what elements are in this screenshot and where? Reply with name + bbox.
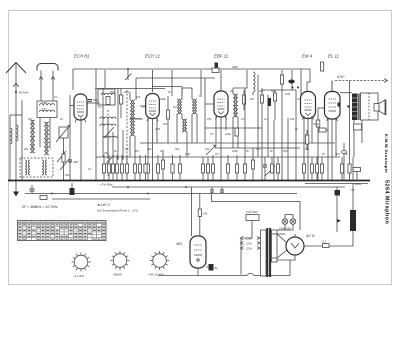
wire rail y143	[140, 142, 335, 144]
svg-text:10k: 10k	[163, 122, 168, 126]
svg-text:125v: 125v	[246, 242, 253, 246]
resistor 0.1	[323, 244, 330, 248]
IF transformer T2a	[177, 99, 182, 114]
wire IFT2 leads	[177, 88, 197, 157]
capacitor C 300	[68, 160, 72, 162]
capacitor hang x265	[263, 157, 267, 181]
wire rail y157	[96, 156, 340, 158]
capacitor 100u	[335, 187, 341, 232]
resistor hang x272	[270, 157, 273, 173]
resistor 10k	[198, 209, 201, 217]
wire V6 leads top	[192, 187, 200, 236]
svg-text:2M2: 2M2	[231, 65, 238, 69]
wire vert x320	[316, 108, 320, 181]
svg-text:2M2: 2M2	[154, 127, 161, 131]
page edge bottom	[8, 284, 392, 286]
svg-text:Á.L.B.P: Á.L.B.P	[73, 274, 84, 278]
resistor hang x278	[276, 157, 279, 181]
svg-text:25p: 25p	[206, 117, 212, 121]
coil L-mid2	[130, 119, 142, 121]
wire V1 cathode down	[80, 118, 82, 181]
svg-text:50p: 50p	[110, 90, 115, 94]
resistor hang x113	[111, 155, 114, 181]
coil L-mid row2	[100, 124, 116, 126]
resistor hang x127	[125, 155, 128, 181]
wire top bus drop x152	[152, 70, 154, 92]
wire vert x63	[63, 138, 65, 181]
svg-text:0,5: 0,5	[142, 105, 146, 109]
wire HT feed	[212, 194, 301, 231]
arrow mark x337	[337, 219, 341, 223]
wire vert x205	[204, 104, 206, 143]
svg-text:0,1: 0,1	[88, 167, 92, 171]
svg-text:100p: 100p	[160, 97, 166, 101]
voltage tap arrows left	[241, 237, 244, 275]
resistor below IFT3	[235, 128, 238, 136]
resistor hang x245	[243, 157, 246, 181]
coil L1 on antenna lead	[16, 125, 18, 141]
svg-text:BAND: BAND	[114, 273, 123, 277]
wire vert x262	[261, 88, 263, 181]
wire bus elbow x310	[307, 69, 310, 91]
resistor hang x213	[211, 155, 214, 181]
wire rail y193	[25, 193, 297, 195]
component blob on bus x216	[215, 63, 219, 68]
wire horiz y88	[95, 88, 165, 90]
wire vert x288	[287, 118, 289, 181]
wire vert x172	[171, 70, 173, 96]
resistor right x275	[273, 90, 276, 120]
svg-text:300: 300	[73, 160, 78, 164]
junction dot	[147, 193, 149, 195]
wire V1 plate right	[88, 102, 101, 104]
svg-text:EM 4: EM 4	[302, 54, 313, 59]
resistor above bus x322	[321, 62, 324, 71]
tube V6 4E5	[190, 236, 206, 268]
junction dot	[69, 180, 71, 182]
wire rail y199 short	[52, 198, 150, 200]
wire vert x296	[295, 90, 297, 181]
wire V6 bottom	[197, 268, 199, 276]
tube pin stubs	[327, 118, 338, 122]
frame pickup symbol	[37, 64, 58, 102]
resistor hang x104	[102, 155, 105, 181]
resistor hang x322	[320, 157, 323, 181]
wire AZ11 bottom	[277, 255, 295, 260]
svg-text:AZ 11: AZ 11	[305, 234, 315, 238]
svg-text:4k7: 4k7	[250, 97, 255, 101]
resistor right x262b	[260, 95, 263, 103]
resistor vert x244	[242, 90, 245, 110]
resistor hang x208	[206, 157, 209, 181]
svg-text:50p: 50p	[65, 173, 70, 177]
wire vert x268	[267, 95, 269, 157]
wire V1 grid	[70, 105, 75, 107]
wire lamp rail	[277, 215, 293, 231]
svg-text:10k: 10k	[203, 212, 208, 216]
svg-text:ECH 11: ECH 11	[145, 54, 161, 59]
svg-text:Auf Sonderband Punkt 2 - 270: Auf Sonderband Punkt 2 - 270	[96, 209, 138, 213]
power transformer secondary	[272, 230, 278, 262]
wire choke lead	[252, 92, 254, 95]
tube V2 ECH11	[146, 94, 160, 119]
svg-text:25p: 25p	[282, 149, 288, 153]
switch diagonal mid	[206, 145, 216, 155]
antenna node dot	[15, 91, 17, 93]
resistor hang x228	[226, 155, 229, 181]
svg-text:100p: 100p	[232, 149, 238, 153]
switch contact mid1	[104, 127, 114, 166]
svg-text:100p: 100p	[225, 132, 231, 136]
svg-text:240v: 240v	[354, 182, 362, 186]
svg-text:0,5: 0,5	[297, 97, 301, 101]
lower coil pair D	[42, 160, 47, 175]
wire V2 cathode	[152, 119, 154, 181]
resistor mid	[106, 97, 110, 105]
svg-text:8μ: 8μ	[215, 266, 219, 270]
band switch contacts left	[57, 151, 69, 170]
wire mains up	[289, 260, 291, 276]
resistor hang x145.5	[144, 155, 147, 181]
svg-text:0,1: 0,1	[54, 95, 58, 99]
resistor hang x317	[315, 157, 318, 181]
wire V5 plate line	[340, 92, 352, 94]
tube pin stubs	[303, 116, 314, 120]
dial lamps	[282, 219, 296, 225]
resistor hang x158	[156, 155, 159, 181]
wire V3 grid	[205, 103, 214, 105]
wire left vert x10	[9, 115, 11, 181]
tube pin stubs	[216, 116, 227, 120]
svg-text:50p: 50p	[175, 147, 180, 151]
wire x353 above	[352, 157, 354, 181]
resistor hang x312	[310, 157, 313, 181]
resistor hang x117	[115, 155, 118, 181]
wire to choke	[329, 231, 353, 246]
switch contact right	[265, 166, 275, 176]
wire top bus drop x128	[125, 68, 132, 80]
model text vertical	[384, 134, 390, 224]
wire V5 pins	[328, 119, 336, 181]
junction dot	[95, 180, 97, 182]
resistor vert x168	[166, 96, 169, 143]
bandfilter coil pair B	[44, 122, 49, 155]
wire top bus drop x73	[72, 69, 74, 90]
wire vert x123	[122, 130, 124, 160]
wire top bus drop x221	[220, 70, 222, 91]
ground symbol	[13, 181, 19, 197]
wire V2 pin right	[156, 117, 158, 143]
svg-text:2M2: 2M2	[284, 92, 291, 96]
svg-text:4k7: 4k7	[28, 117, 33, 121]
capacitor left x63	[62, 150, 65, 162]
wire V3 pin left	[215, 116, 217, 143]
capacitor below bus x32	[30, 185, 35, 194]
choke electrolytic block	[350, 210, 356, 231]
svg-text:110v: 110v	[246, 237, 252, 241]
svg-text:0,1: 0,1	[125, 147, 129, 151]
wire left link	[10, 114, 22, 116]
svg-text:EL 11: EL 11	[328, 54, 340, 59]
wire vert x113	[112, 132, 114, 157]
voltage table	[18, 221, 107, 241]
wire V5 heater up	[331, 81, 333, 92]
resistor on top bus	[212, 68, 219, 73]
svg-text:+Tls 5Ma: +Tls 5Ma	[100, 183, 113, 187]
tube V4 EM4	[301, 92, 316, 119]
knob 2	[111, 251, 130, 277]
wire OT leads	[354, 120, 363, 157]
dashed coil enclosure box	[20, 158, 53, 177]
fuse oval x344	[342, 143, 347, 181]
wire osc box leads	[40, 118, 50, 150]
wire EL11 grid left	[318, 107, 325, 109]
svg-text:60 kHz: 60 kHz	[19, 91, 29, 95]
tube V7 AZ11	[286, 234, 304, 255]
page edge left	[8, 10, 10, 285]
capacitor 50p upper	[88, 100, 92, 102]
ground bus	[8, 180, 370, 182]
coil box mid	[98, 89, 115, 105]
resistor box x253	[251, 148, 254, 181]
svg-text:30p: 30p	[259, 89, 264, 93]
IF transformer T2c lower	[182, 119, 187, 132]
svg-text:EBF 11: EBF 11	[214, 54, 229, 59]
IF transformer T3	[233, 94, 238, 117]
resistor below bus x43	[40, 196, 47, 200]
power transformer primary	[261, 230, 267, 276]
svg-text:10k: 10k	[136, 95, 141, 99]
page edge top	[8, 10, 392, 12]
wire vert x96	[95, 69, 97, 181]
svg-text:0,5A 25W: 0,5A 25W	[246, 210, 258, 214]
output transformer box	[361, 93, 379, 120]
output transformer winding block	[352, 94, 358, 121]
resistor hang x122	[120, 155, 123, 181]
svg-text:0,1: 0,1	[241, 117, 245, 121]
dashed link vert x127	[126, 90, 128, 176]
oscillator coil box	[37, 101, 57, 118]
tube V1 ECH81	[74, 94, 87, 120]
resistor hang x163	[161, 150, 164, 181]
wire IFT3 leads	[233, 72, 247, 148]
output transformer core lines	[358, 94, 359, 121]
wire left vert x22	[21, 100, 23, 181]
wire choke up	[352, 183, 354, 210]
coil L-mid upper	[101, 93, 115, 95]
svg-text:6,3V~: 6,3V~	[337, 75, 346, 79]
electrolytic 8uF	[206, 264, 214, 271]
lower coil pair C	[25, 160, 30, 175]
knob 3	[149, 251, 170, 277]
wire top bus drop x247	[246, 70, 248, 72]
svg-text:2M2: 2M2	[123, 90, 130, 94]
dark resistor x269	[268, 98, 271, 106]
svg-text:⊕ 140 V: ⊕ 140 V	[97, 203, 110, 207]
knob 1	[72, 253, 91, 279]
wire vert x258	[257, 75, 259, 157]
resistor hang x237	[235, 155, 238, 181]
resistor vert x282	[280, 70, 283, 181]
EL11 anode blob	[338, 103, 341, 107]
svg-text:50p: 50p	[271, 89, 276, 93]
svg-text:10k: 10k	[290, 117, 295, 121]
resistor hang x347	[347, 81, 351, 181]
wire V3 cathode	[220, 117, 222, 181]
dashed link vert x108	[107, 110, 109, 176]
wire top bus drop x301	[300, 69, 302, 95]
trimmer pair x212	[210, 187, 224, 194]
junction dot	[261, 180, 263, 182]
junction dot	[51, 193, 53, 195]
svg-text:ECH 81: ECH 81	[74, 54, 90, 59]
resistor hang x304	[302, 157, 305, 181]
svg-text:10k: 10k	[205, 147, 210, 151]
resistor horiz x354	[353, 168, 361, 181]
wire IFT1 leads	[130, 92, 135, 157]
speaker	[374, 100, 386, 116]
resistor vert x121	[119, 88, 122, 118]
tube V3 EBF11	[214, 91, 228, 117]
tube pin stubs	[147, 118, 158, 122]
variable capacitor C-tune	[56, 125, 70, 142]
IF transformer T2b	[192, 99, 197, 114]
coil L-mid row1	[100, 117, 116, 119]
heater supply line 6.3V	[332, 79, 388, 92]
wire lamp to az	[276, 233, 285, 235]
wire top bus drop x105	[104, 70, 106, 88]
junction dot	[185, 186, 187, 188]
wire top bus drop x201	[200, 70, 202, 95]
wire blob lead	[215, 68, 217, 70]
svg-text:0,5: 0,5	[210, 132, 214, 136]
resistor vert x307	[305, 130, 308, 150]
svg-text:0,1: 0,1	[98, 105, 102, 109]
wire rail y187	[112, 186, 345, 188]
wire grid loop above V2	[136, 78, 215, 104]
coil L-mid row3	[103, 136, 117, 138]
wire vert x274	[273, 120, 275, 181]
wire vert x103	[102, 88, 104, 157]
voltage tap arrows right	[257, 237, 260, 250]
resistor hang x109	[107, 155, 110, 181]
resistor hang x203	[201, 157, 204, 181]
junction dot	[295, 180, 297, 182]
mains switch	[247, 273, 254, 275]
wire rail y183 right	[305, 183, 368, 185]
resistor hang x148	[146, 155, 149, 181]
tube pin stubs	[75, 119, 86, 123]
RF choke below bus	[253, 72, 255, 92]
bandfilter coil pair A	[30, 120, 35, 153]
wire V3 pin right	[225, 116, 227, 130]
svg-text:0,1: 0,1	[264, 117, 268, 121]
svg-text:E.M.W Grossuper: E.M.W Grossuper	[384, 134, 389, 173]
wire vert x118	[117, 88, 119, 160]
svg-text:100p: 100p	[313, 122, 319, 126]
junction dot	[80, 180, 82, 182]
resistor hang x342	[340, 157, 343, 181]
svg-text:4E5: 4E5	[176, 242, 182, 246]
resistor hang x140	[138, 155, 141, 181]
wire vert x108	[107, 118, 109, 157]
coil L2	[10, 128, 12, 144]
svg-text:2M2: 2M2	[184, 152, 191, 156]
mains line 2	[254, 275, 290, 277]
wire rectifier diagonals	[272, 234, 287, 258]
svg-text:0,5: 0,5	[215, 152, 219, 156]
wire V2 pin left	[147, 117, 149, 155]
tube V5 EL11	[325, 92, 341, 120]
wire V2 grid left	[140, 105, 146, 107]
mains line	[158, 275, 247, 277]
junction dot	[152, 180, 154, 182]
junction dot	[220, 180, 222, 182]
wire rail y90 right	[262, 89, 296, 91]
dark blob x292	[288, 70, 299, 90]
wire V4 pins	[304, 116, 312, 181]
wire AZ11 out	[304, 245, 323, 247]
svg-text:ZF = 468kHz = 10,7kHz: ZF = 468kHz = 10,7kHz	[21, 205, 58, 209]
power transformer core	[266, 228, 271, 277]
svg-text:25p: 25p	[103, 151, 109, 155]
svg-text:5264 Miraphon: 5264 Miraphon	[384, 180, 390, 224]
wire rail y148	[215, 147, 300, 149]
resistor hang x135	[133, 155, 136, 181]
svg-text:4k7: 4k7	[135, 149, 140, 153]
svg-text:30p: 30p	[24, 147, 29, 151]
junction dot	[252, 180, 254, 182]
resistor hang x172.5	[171, 155, 174, 181]
svg-text:0,1: 0,1	[160, 149, 164, 153]
page edge right	[391, 10, 393, 285]
resistor hang x180	[178, 155, 181, 181]
svg-text:30p: 30p	[147, 147, 152, 151]
resistor V5 cathode	[319, 128, 328, 132]
junction dot	[127, 186, 129, 188]
electrolytic x70	[70, 183, 75, 195]
svg-text:0,1: 0,1	[323, 240, 327, 244]
fuse box	[244, 215, 260, 239]
wire rail y128	[205, 127, 262, 129]
IF transformer T1	[130, 100, 135, 136]
wire vert x70	[69, 95, 71, 181]
wire top HT bus	[73, 68, 310, 70]
antenna symbol	[6, 63, 26, 181]
svg-text:220v: 220v	[245, 247, 253, 251]
wire vert x245b	[244, 88, 246, 157]
